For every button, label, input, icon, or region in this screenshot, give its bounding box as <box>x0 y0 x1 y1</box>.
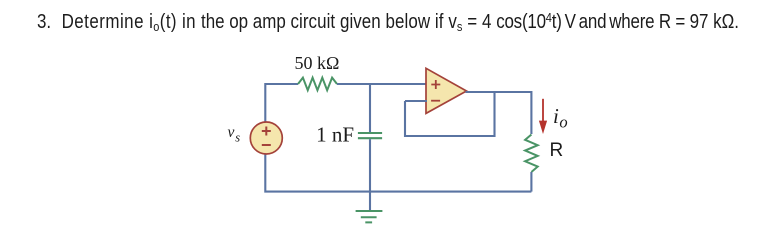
wire source bottom to bottom rail <box>265 154 531 192</box>
capacitor C1 plates <box>358 133 382 138</box>
op-amp plus <box>431 80 440 89</box>
wire resistor bottom to rail <box>530 172 532 192</box>
wire feedback loop <box>405 92 495 136</box>
ground stub <box>369 192 371 211</box>
problem statement text <box>37 11 739 34</box>
ground <box>356 211 383 222</box>
svg-text:50 kΩ: 50 kΩ <box>295 53 340 73</box>
op-amp U1 <box>426 68 467 113</box>
wire capacitor bottom to rail <box>369 139 371 191</box>
svg-text:io: io <box>553 104 568 132</box>
wire resistor to op-amp + input <box>337 83 427 85</box>
source plus <box>262 127 271 136</box>
op-amp minus <box>431 100 440 102</box>
svg-text:vs: vs <box>228 124 241 145</box>
svg-text:R: R <box>550 140 564 161</box>
resistor R vertical zigzag <box>525 135 538 173</box>
resistor R1 50k zigzag <box>298 78 337 91</box>
current arrow io <box>542 99 544 123</box>
wire capacitor branch top <box>369 84 371 132</box>
wire output <box>466 92 532 134</box>
wire top left: source top to resistor <box>265 84 298 122</box>
svg-text:1 nF: 1 nF <box>316 123 354 147</box>
wire inverting input <box>405 100 427 102</box>
voltage source Vs <box>250 122 282 154</box>
source minus <box>262 144 271 146</box>
